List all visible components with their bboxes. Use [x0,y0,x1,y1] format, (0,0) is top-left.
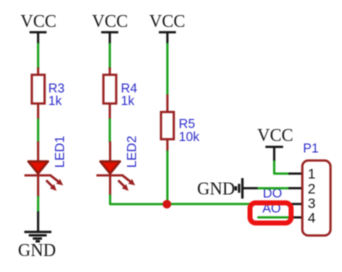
wire R4 to LED2 [109,119,111,143]
wire junction to P1 pin 3 (DO net) [167,203,291,205]
svg-text:VCC: VCC [92,11,128,31]
power symbol VCC (column 2) [92,11,128,44]
svg-text:LED2: LED2 [124,136,139,168]
svg-text:VCC: VCC [21,11,57,31]
pin 1 stub black [289,172,303,174]
power symbol VCC (right) [257,125,293,162]
svg-text:VCC: VCC [257,125,293,145]
wire R3 to LED1 [37,119,39,143]
wire VCC to R3 [37,43,39,69]
svg-text:4: 4 [308,210,316,226]
svg-text:10k: 10k [179,129,200,144]
pin 3 stub black [289,203,302,205]
connector P1 body [302,161,330,236]
wire GND to P1 pin 2 [258,187,290,189]
svg-text:LED1: LED1 [52,136,67,168]
LED LED1 [24,141,63,197]
pin 2 stub black [289,187,303,189]
wire VCC to R4 [109,43,111,69]
svg-text:P1: P1 [303,141,319,156]
wire VCC to R5 [166,43,168,96]
svg-text:GND: GND [197,178,235,198]
AO terminal wire [257,216,290,218]
ground symbol GND (right, rotated) [197,178,258,199]
svg-text:2: 2 [308,180,316,196]
ground symbol GND (bottom left) [18,211,56,259]
wire LED1 to GND [37,196,39,212]
resistor R3 [32,68,45,120]
LED LED2 [96,141,135,195]
svg-text:GND: GND [18,240,56,260]
pin 4 stub black [289,216,302,218]
resistor R4 [103,68,116,120]
svg-text:1: 1 [308,166,316,182]
red highlight box around AO [250,203,291,223]
power symbol VCC (column 3) [149,11,185,44]
svg-text:VCC: VCC [149,11,185,31]
wire VCC to P1 pin 1 [274,161,289,174]
power symbol VCC (column 1) [21,11,57,44]
wire R5 to junction node [166,151,168,205]
wire LED2 to junction node [110,195,167,205]
resistor R5 [161,95,174,152]
svg-text:1k: 1k [121,93,135,108]
svg-text:1k: 1k [48,93,62,108]
junction node dot [163,200,172,209]
